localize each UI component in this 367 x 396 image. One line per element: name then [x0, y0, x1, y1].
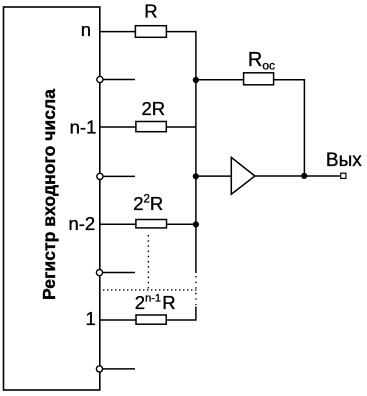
stub wire unused bit below n-2: [100, 272, 135, 274]
dotted continuation vertical under 2^2R: [147, 235, 149, 289]
wire: R to summing bus with corner down: [167, 32, 196, 273]
wire: bit n-2 from register to 2^2R: [100, 223, 136, 225]
junction dot bus/Roc: [193, 77, 199, 83]
svg-text:1: 1: [86, 308, 96, 329]
wire: bit n from register to R: [100, 31, 136, 33]
wire: bit 1 from register to 2^(n-1)R: [100, 319, 136, 321]
stub wire unused bit below n-1: [100, 175, 135, 177]
svg-text:Регистр входного числа: Регистр входного числа: [39, 89, 59, 300]
wire: bus to Roc: [196, 79, 244, 81]
svg-text:n-2: n-2: [68, 213, 95, 234]
open pin circle at register edge y=79.5: [97, 76, 103, 82]
resistor 2R: [136, 122, 166, 132]
wire: 2R to bus: [167, 126, 196, 128]
open pin circle at register edge y=368.9: [96, 366, 102, 372]
junction dot bus/op-amp input: [193, 173, 199, 179]
resistor 2^2R: [136, 220, 167, 228]
svg-text:Вых: Вых: [326, 150, 362, 171]
register box U1 (Регистр входного числа): [4, 7, 100, 390]
resistor R: [135, 26, 166, 38]
svg-text:n: n: [81, 19, 91, 40]
resistor 2^(n-1)R: [136, 315, 166, 324]
svg-text:R: R: [144, 1, 157, 22]
stub wire unused bit below n: [100, 79, 135, 81]
wire: bus to op-amp input: [196, 175, 231, 177]
svg-text:2R: 2R: [142, 98, 166, 119]
junction dot output/feedback: [301, 173, 307, 179]
wire: bit n-1 from register to 2R: [100, 126, 136, 128]
open pin circle at register edge y=272.5: [96, 270, 102, 276]
wire: 2^2R to bus: [167, 223, 196, 225]
wire: op-amp output to terminal: [255, 175, 340, 177]
op-amp A1 triangle: [231, 157, 255, 194]
resistor Roc: [244, 73, 274, 85]
open pin circle at register edge y=176.4: [97, 173, 103, 179]
output terminal square: [341, 173, 346, 178]
junction dot bus/2^2R: [193, 221, 199, 227]
wire: Roc to feedback corner down to output node: [274, 80, 304, 176]
wire: 2^(n-1)R to bus corner up: [167, 307, 196, 321]
stub wire unused bit at bottom: [100, 368, 135, 370]
svg-text:n-1: n-1: [70, 117, 97, 138]
dotted continuation horizontal row: [103, 289, 198, 291]
dotted continuation of bus: [195, 276, 197, 305]
